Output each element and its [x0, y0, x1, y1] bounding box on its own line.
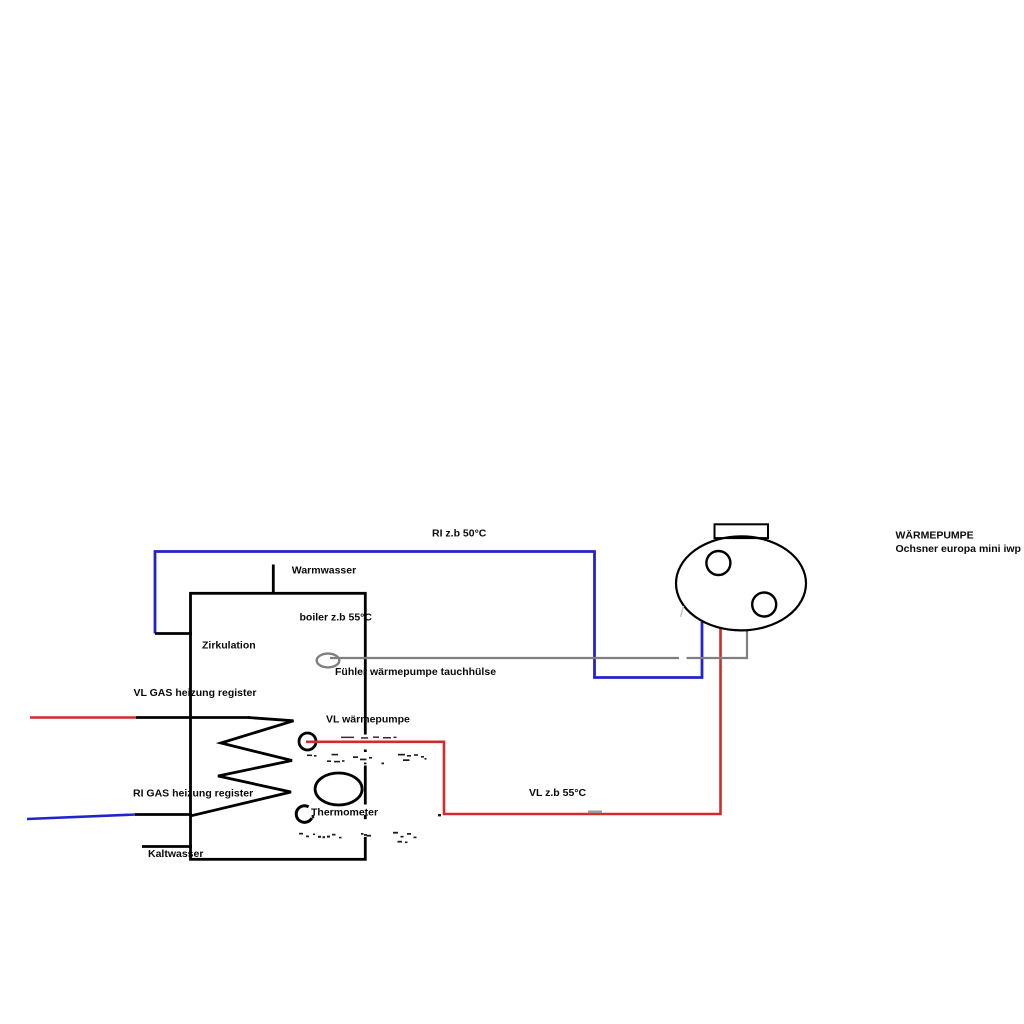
comma mark — [312, 815, 315, 818]
svg-text:RI GAS heizung register: RI GAS heizung register — [133, 787, 253, 799]
wire blue return RI from boiler to heat pump — [155, 552, 702, 678]
svg-text:Kaltwasser: Kaltwasser — [148, 848, 203, 860]
wire gray fuehler to heat pump — [330, 657, 679, 659]
white gaps on tank right edge — [357, 735, 374, 750]
smudge dash row above red pipe — [341, 736, 397, 738]
heat pump body ellipse — [676, 536, 806, 630]
thermometer small circle (partial) — [296, 806, 311, 823]
svg-text:RI z.b 50°C: RI z.b 50°C — [432, 527, 487, 539]
wire black RI GAS into tank — [135, 813, 192, 816]
smudge scribbles row B — [299, 832, 417, 843]
fuehler sensor ellipse gray — [317, 654, 340, 668]
svg-text:VL z.b 55°C: VL z.b 55°C — [529, 787, 587, 799]
smudge scribbles row A — [307, 754, 427, 765]
heating register zigzag coil — [191, 718, 294, 816]
faint stray mark near pump lower left — [681, 606, 684, 617]
svg-text:Warmwasser: Warmwasser — [292, 565, 356, 577]
kaltwasser pipe — [142, 845, 192, 848]
wire black zirkulation stub — [155, 632, 192, 635]
gray dash on red pipe — [588, 811, 602, 814]
svg-text:Ochsner europa mini iwp: Ochsner europa mini iwp — [896, 543, 1021, 555]
svg-text:Thermometer: Thermometer — [311, 807, 378, 819]
heat pump collar rect — [715, 524, 769, 538]
svg-text:WÄRMEPUMPE: WÄRMEPUMPE — [896, 529, 974, 542]
heat pump port circle upper left — [706, 551, 730, 575]
wire red VL GAS left — [30, 716, 137, 719]
svg-text:VL GAS heizung register: VL GAS heizung register — [134, 687, 257, 699]
thermometer ellipse — [315, 773, 362, 805]
svg-text:Fühler wärmepumpe tauchhülse: Fühler wärmepumpe tauchhülse — [335, 666, 496, 678]
wire red VL to heat pump — [306, 628, 721, 814]
VL waermepumpe outlet circle — [299, 733, 316, 750]
small dot on red pipe left — [438, 814, 441, 816]
warmwasser pipe — [272, 565, 275, 595]
svg-text:VL wärmepumpe: VL wärmepumpe — [326, 714, 410, 726]
boiler tank rectangle — [191, 593, 366, 859]
svg-text:boiler z.b 55°C: boiler z.b 55°C — [300, 612, 373, 624]
svg-text:Zirkulation: Zirkulation — [202, 640, 256, 652]
wire black VL GAS into tank — [136, 716, 250, 719]
heat pump port circle lower right — [752, 593, 776, 617]
wire blue RI GAS left — [27, 815, 136, 820]
